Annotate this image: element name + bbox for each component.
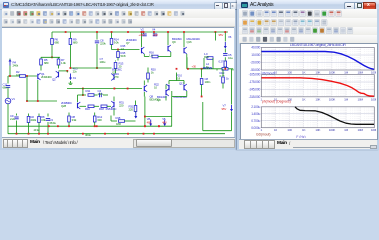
svg-text:18R: 18R (116, 122, 121, 126)
svg-text:2.100u: 2.100u (251, 105, 260, 109)
svg-text:10.000: 10.000 (251, 53, 260, 57)
svg-text:3.9k: 3.9k (41, 118, 46, 122)
svg-text:1k: 1k (226, 76, 229, 80)
svg-text:V1: V1 (12, 97, 16, 101)
svg-text:10K: 10K (315, 128, 321, 132)
svg-text:100n: 100n (205, 80, 211, 84)
svg-text:1.0: 1.0 (149, 53, 153, 57)
svg-text:Q16: Q16 (187, 40, 192, 44)
svg-text:50.8: 50.8 (121, 54, 126, 58)
svg-text:-20.000: -20.000 (250, 61, 260, 65)
svg-text:+30: +30 (192, 64, 197, 68)
svg-text:MJL21193C: MJL21193C (174, 95, 188, 99)
svg-text:0.8: 0.8 (177, 76, 181, 80)
svg-text:10M: 10M (357, 97, 363, 101)
svg-text:1K: 1K (302, 71, 307, 75)
svg-text:1.2m: 1.2m (98, 92, 104, 96)
svg-text:1M: 1M (344, 97, 349, 101)
svg-text:48.0u: 48.0u (85, 133, 91, 137)
svg-text:2.2u: 2.2u (10, 117, 15, 121)
svg-text:1.400u: 1.400u (251, 112, 260, 116)
svg-text:+40V: +40V (139, 33, 145, 37)
svg-text:1.0k: 1.0k (61, 61, 66, 65)
svg-text:44.9u: 44.9u (34, 128, 40, 132)
svg-text:R11: R11 (86, 89, 91, 93)
svg-text:100u: 100u (100, 60, 106, 64)
svg-text:220k: 220k (100, 41, 106, 45)
svg-text:48V: 48V (147, 120, 152, 124)
svg-text:-315.000: -315.000 (249, 95, 261, 99)
svg-text:48V: 48V (162, 120, 167, 124)
svg-text:680: 680 (55, 40, 60, 44)
svg-text:1M: 1M (344, 71, 349, 75)
svg-text:240k: 240k (13, 63, 19, 67)
svg-text:95V: 95V (219, 33, 224, 37)
svg-text:9.0k: 9.0k (114, 40, 119, 44)
svg-text:Q8: Q8 (157, 98, 161, 102)
svg-text:-175.000: -175.000 (249, 80, 261, 84)
svg-text:V2: V2 (141, 27, 145, 31)
svg-text:270: 270 (114, 75, 119, 79)
svg-text:220: 220 (129, 107, 134, 111)
svg-text:Q7: Q7 (126, 41, 130, 45)
svg-text:Q2: Q2 (52, 77, 56, 81)
svg-text:R18: R18 (116, 115, 121, 119)
svg-text:0.27: 0.27 (219, 59, 224, 63)
svg-text:ph(mout) (Degrees): ph(mout) (Degrees) (262, 100, 291, 104)
svg-text:1K: 1K (302, 128, 307, 132)
svg-text:V6: V6 (228, 35, 232, 39)
svg-text:100: 100 (287, 128, 292, 132)
svg-text:330: 330 (97, 118, 102, 122)
svg-text:100M: 100M (371, 97, 376, 101)
svg-text:Q28: Q28 (61, 104, 66, 108)
svg-text:100K: 100K (329, 71, 337, 75)
svg-text:10: 10 (274, 128, 278, 132)
svg-text:Q9: Q9 (172, 40, 176, 44)
svg-text:GD(mout): GD(mout) (256, 132, 270, 136)
svg-text:680: 680 (73, 40, 78, 44)
svg-text:220: 220 (119, 103, 124, 107)
svg-text:10K: 10K (315, 97, 321, 101)
svg-text:100K: 100K (329, 128, 337, 132)
svg-text:240k: 240k (31, 118, 37, 122)
svg-text:-40V: -40V (153, 33, 159, 37)
svg-text:R10: R10 (85, 107, 90, 111)
svg-text:100M: 100M (371, 71, 376, 75)
svg-text:LBCANTI18-1967-original_2kHz-d: LBCANTI18-1967-original_2kHz-dot.CIR (290, 43, 346, 47)
svg-text:40.000: 40.000 (251, 46, 260, 50)
svg-text:R26: R26 (204, 55, 209, 59)
svg-text:680: 680 (44, 61, 49, 65)
svg-text:2N5401C: 2N5401C (106, 107, 117, 111)
svg-text:100: 100 (287, 71, 292, 75)
svg-text:R18: R18 (99, 107, 104, 111)
svg-text:-245.000: -245.000 (249, 88, 261, 92)
svg-text:0.000u: 0.000u (251, 126, 260, 130)
svg-text:10K: 10K (315, 71, 321, 75)
svg-text:95V: 95V (222, 106, 227, 110)
svg-text:10M: 10M (357, 128, 363, 132)
svg-text:68.9u: 68.9u (50, 121, 57, 125)
svg-text:68u: 68u (3, 85, 8, 89)
svg-text:100K: 100K (329, 97, 337, 101)
svg-text:1M: 1M (344, 128, 349, 132)
svg-text:-105.000: -105.000 (249, 73, 261, 77)
svg-text:1K: 1K (302, 97, 307, 101)
svg-text:1.0: 1.0 (121, 47, 125, 51)
svg-text:2N3440C: 2N3440C (41, 75, 52, 79)
svg-text:0.1u: 0.1u (228, 56, 233, 60)
svg-text:X1: X1 (73, 76, 77, 80)
svg-text:100M: 100M (371, 128, 376, 132)
svg-text:3.9k: 3.9k (72, 118, 77, 122)
svg-text:0.700u: 0.700u (251, 119, 260, 123)
svg-text:V4: V4 (152, 27, 156, 31)
svg-text:10M: 10M (357, 71, 363, 75)
svg-text:-50.000: -50.000 (250, 68, 260, 72)
